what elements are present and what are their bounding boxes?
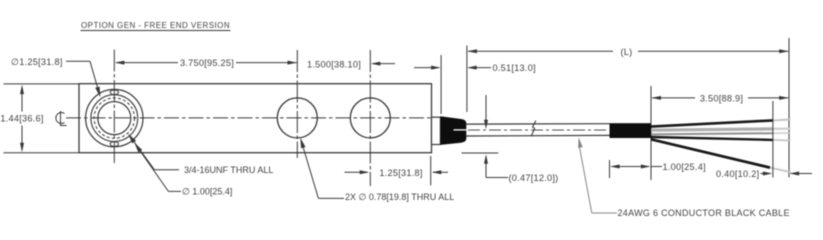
extension line wire strip point <box>772 101 774 178</box>
thread runout mark top <box>110 90 118 95</box>
wire 3 medium gray <box>651 133 773 134</box>
wire 2 light gray band <box>651 129 773 130</box>
dim (0.47[12.0]) up arrow and leader <box>484 154 488 164</box>
hole 1 vertical centerline <box>296 50 298 158</box>
extension line body right edge bottom <box>430 156 432 185</box>
svg-text:1.00[25.4]: 1.00[25.4] <box>663 162 706 172</box>
dim 3.750[95.25] <box>116 62 178 64</box>
dim (L) <box>468 50 613 52</box>
extension line strain relief left <box>440 55 442 114</box>
wire 2 bare end <box>773 128 791 130</box>
svg-text:∅ 1.00[25.4]: ∅ 1.00[25.4] <box>182 187 232 197</box>
hole 2 D0.78 <box>350 98 390 138</box>
dim 1.44[36.6] dimension line with arrows <box>21 87 23 112</box>
vertical centerline threaded hole <box>113 50 115 164</box>
svg-text:(L): (L) <box>621 47 633 57</box>
dim 0.51[13.0] <box>414 67 439 69</box>
dim 1.25[31.8] bottom <box>345 171 368 173</box>
svg-text:0.40[10.2]: 0.40[10.2] <box>716 169 759 179</box>
dim 1.00[25.4] cable <box>612 166 650 168</box>
dim 1.44[36.6] extension lines <box>4 83 80 85</box>
body bottom extension bar right <box>462 152 499 154</box>
dim 0.40[10.2] <box>716 169 759 179</box>
leader 2X D0.78[19.8] THRU ALL <box>301 140 318 198</box>
svg-text:OPTION GEN - FREE END VERSION: OPTION GEN - FREE END VERSION <box>81 21 230 30</box>
title OPTION GEN - FREE END VERSION <box>81 21 230 30</box>
svg-text:0.51[13.0]: 0.51[13.0] <box>493 63 536 73</box>
hole 2 vertical centerline <box>369 50 371 186</box>
connector boss white protrusion <box>432 117 441 144</box>
boss circle D1.25 outer <box>86 89 143 146</box>
svg-text:1.44[36.6]: 1.44[36.6] <box>0 114 43 124</box>
cable centerline dash-dot <box>468 129 608 131</box>
extension line cable end right <box>788 38 790 178</box>
counterbore circle D1.00 <box>91 95 138 142</box>
leader D1.00[25.4] <box>137 146 169 191</box>
bore circle inner <box>98 102 131 135</box>
thread runout mark bottom <box>110 142 118 147</box>
svg-text:2X ∅ 0.78[19.8] THRU ALL: 2X ∅ 0.78[19.8] THRU ALL <box>345 192 454 202</box>
white centerline dash inside strain relief <box>454 129 467 131</box>
cable jacket stripped black section <box>610 123 652 138</box>
cable outline top <box>466 123 609 125</box>
centerline symbol CL <box>56 111 67 126</box>
dim 3.50[88.9] <box>652 97 695 99</box>
extension line cable start <box>466 46 468 113</box>
cable break mark <box>531 121 536 137</box>
title underline <box>81 30 231 32</box>
dim (0.47[12.0]) down arrow <box>485 95 487 127</box>
thread circle 3/4-16UNF dashed <box>94 98 134 138</box>
svg-text:3.750[95.25]: 3.750[95.25] <box>180 58 234 68</box>
svg-text:(0.47[12.0]): (0.47[12.0]) <box>509 173 559 183</box>
wire 5 bare end <box>770 168 791 173</box>
svg-text:3.50[88.9]: 3.50[88.9] <box>700 94 743 104</box>
cable outline bottom <box>466 134 609 137</box>
leader D1.25[31.8] <box>11 57 63 67</box>
svg-text:3/4-16UNF THRU ALL: 3/4-16UNF THRU ALL <box>184 165 273 175</box>
wire 4 bare end <box>773 139 791 142</box>
wire 1 bare end <box>773 119 791 122</box>
cable strain relief black trapezoid <box>440 116 466 145</box>
extension line black jacket start <box>609 160 611 178</box>
svg-text:∅1.25[31.8]: ∅1.25[31.8] <box>11 57 63 67</box>
svg-text:24AWG 6 CONDUCTOR BLACK CABLE: 24AWG 6 CONDUCTOR BLACK CABLE <box>618 208 790 218</box>
wire 4 black <box>651 137 773 140</box>
dim 1.500[38.10] <box>307 59 361 69</box>
wire 5 black steep <box>651 139 770 167</box>
extension line black jacket end <box>650 86 652 180</box>
svg-text:1.500[38.10]: 1.500[38.10] <box>307 59 361 69</box>
leader 3/4-16UNF THRU ALL <box>131 137 155 170</box>
svg-text:1.25[31.8]: 1.25[31.8] <box>379 168 422 178</box>
horizontal dash-dot centerline through body <box>66 117 431 119</box>
leader 24AWG cable note <box>578 137 583 148</box>
wire 1 black top <box>651 120 773 126</box>
wire 3 bare end <box>773 132 791 134</box>
load cell body outline <box>79 84 432 153</box>
hole 1 D0.78 <box>277 98 317 138</box>
